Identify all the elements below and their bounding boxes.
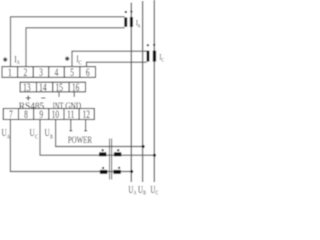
wire terminal5 to CT IC secondary top bbox=[72, 51, 147, 66]
CT IC primary winding bar bbox=[153, 51, 156, 62]
PT T1 right winding bar bbox=[114, 152, 121, 156]
svg-text:A: A bbox=[134, 191, 137, 196]
CT IA primary winding bar bbox=[130, 17, 133, 27]
terminal row 13-16 bbox=[20, 82, 85, 92]
wire terminal9 UC to phase C via PT T1 bbox=[40, 120, 154, 156]
svg-text:U: U bbox=[2, 127, 7, 139]
wire terminal6 to CT IC secondary bottom bbox=[87, 62, 147, 66]
svg-text:C: C bbox=[156, 191, 159, 196]
CT IA polarity dots bbox=[125, 11, 127, 13]
svg-text:14: 14 bbox=[39, 81, 46, 94]
PT core lines bbox=[110, 139, 112, 180]
junction dot UA on phase A bbox=[130, 170, 133, 173]
PT T2 left winding bar bbox=[100, 170, 107, 174]
svg-text:B: B bbox=[143, 191, 146, 196]
asterisk near IA bbox=[3, 57, 7, 62]
svg-text:C: C bbox=[161, 58, 164, 64]
wire terminal1 to CT IA secondary top bbox=[11, 17, 125, 67]
svg-text:2: 2 bbox=[24, 66, 28, 79]
junction dot UC on phase C bbox=[153, 154, 156, 157]
svg-text:13: 13 bbox=[23, 81, 30, 94]
svg-text:3: 3 bbox=[39, 66, 43, 79]
svg-text:7: 7 bbox=[9, 108, 13, 121]
wire terminal10 UB to phase B bbox=[56, 120, 144, 147]
power stub terminal11 bbox=[69, 120, 72, 131]
CT IC secondary winding bar bbox=[147, 51, 150, 62]
svg-text:1: 1 bbox=[8, 66, 12, 79]
plus mark terminal13 bbox=[26, 96, 31, 101]
svg-text:U: U bbox=[30, 127, 35, 139]
wire terminal2 to CT IA secondary bottom bbox=[26, 28, 125, 67]
row3 digits bbox=[23, 81, 79, 94]
svg-text:4: 4 bbox=[55, 66, 59, 79]
PT T2 polarity dots bbox=[102, 167, 104, 169]
stub terminal15 INT bbox=[58, 92, 60, 97]
phase line C bbox=[153, 0, 155, 182]
minus mark terminal14 bbox=[41, 97, 45, 99]
svg-text:U: U bbox=[45, 127, 50, 139]
asterisk near IC bbox=[65, 56, 69, 61]
stub terminal16 GND bbox=[73, 92, 75, 97]
phase line B bbox=[142, 1, 144, 182]
svg-text:6: 6 bbox=[86, 66, 90, 79]
svg-text:A: A bbox=[17, 60, 20, 66]
svg-text:C: C bbox=[79, 61, 82, 67]
svg-text:A: A bbox=[7, 134, 10, 140]
svg-text:16: 16 bbox=[72, 81, 79, 94]
terminal row 1-6 bbox=[2, 67, 96, 78]
PT T1 polarity dots bbox=[102, 149, 104, 151]
svg-text:15: 15 bbox=[55, 81, 62, 94]
PT T1 left winding bar bbox=[99, 152, 106, 156]
svg-text:POWER: POWER bbox=[68, 135, 93, 146]
svg-text:12: 12 bbox=[82, 108, 89, 121]
svg-text:B: B bbox=[50, 134, 53, 140]
row2 digits bbox=[9, 108, 90, 121]
svg-text:GND: GND bbox=[65, 102, 81, 112]
CT IA secondary winding bar bbox=[124, 17, 127, 26]
svg-text:A: A bbox=[138, 24, 141, 30]
CT IC polarity dots bbox=[147, 44, 149, 46]
row1 digits bbox=[8, 66, 90, 79]
svg-text:5: 5 bbox=[70, 66, 74, 79]
junction dot UB on phase B bbox=[142, 145, 145, 148]
power stub terminal12 bbox=[84, 120, 87, 131]
PT T2 right winding bar bbox=[113, 170, 120, 174]
svg-text:RS485: RS485 bbox=[19, 102, 45, 112]
wire terminal7 UA to phase A via PT T2 bbox=[10, 120, 131, 172]
phase line A bbox=[130, 3, 132, 183]
svg-text:C: C bbox=[35, 134, 38, 140]
terminal row 7-12 bbox=[3, 109, 94, 120]
svg-text:INT: INT bbox=[53, 102, 64, 112]
